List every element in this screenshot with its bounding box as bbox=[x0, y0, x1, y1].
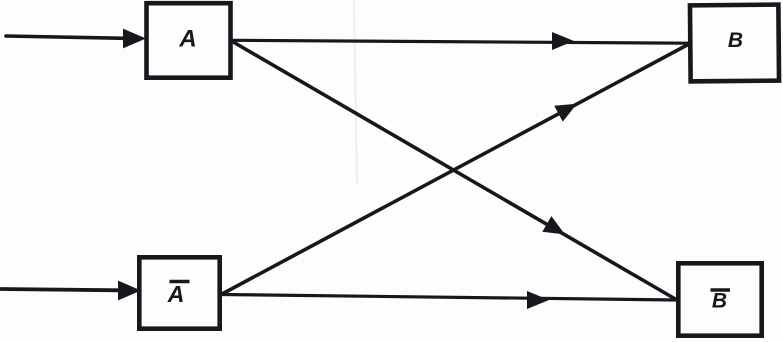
svg-text:A: A bbox=[167, 281, 185, 307]
node B (box) bbox=[690, 5, 779, 82]
node A (box) bbox=[147, 3, 231, 78]
arrowhead: A to B mid-wire bbox=[552, 32, 574, 50]
arrowhead: A-bar to B-bar mid-wire bbox=[527, 291, 549, 309]
label A-bar bbox=[167, 281, 190, 307]
arrowhead: A-bar to B mid-wire bbox=[554, 96, 581, 122]
wire: input line into A bbox=[6, 36, 125, 38]
svg-text:B: B bbox=[712, 290, 727, 313]
faint scan streak bbox=[354, 0, 357, 185]
arrowhead: input into A bbox=[123, 29, 146, 49]
wire: A to B (horizontal) bbox=[232, 40, 689, 43]
wire: A to B-bar (diagonal) bbox=[232, 41, 678, 300]
label A bbox=[178, 26, 196, 53]
svg-text:A: A bbox=[178, 26, 196, 53]
arrowhead: input into A-bar bbox=[118, 281, 141, 301]
wire: A-bar to B-bar (horizontal) bbox=[222, 295, 677, 301]
node A-bar (box) bbox=[139, 257, 219, 328]
wire: input line into A-bar bbox=[1, 289, 120, 290]
label B bbox=[728, 29, 743, 52]
node B-bar (box) bbox=[678, 263, 761, 335]
label B-bar bbox=[711, 290, 731, 313]
arrowhead: A to B-bar mid-wire bbox=[542, 216, 569, 242]
wire: A-bar to B (diagonal) bbox=[222, 44, 689, 294]
svg-text:B: B bbox=[728, 29, 743, 52]
